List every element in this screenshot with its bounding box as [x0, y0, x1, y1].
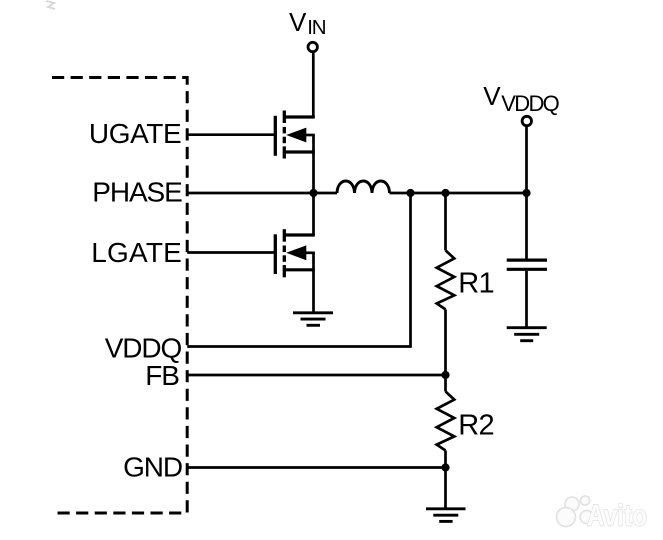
wire R1 to FB node [444, 309, 447, 375]
wire FB node to R2 [444, 375, 447, 392]
ground (under Q2) [293, 313, 333, 326]
wire output node to R1 [444, 193, 447, 250]
wire Q1 source to PHASE node [312, 152, 315, 193]
svg-text:V: V [483, 81, 501, 111]
wire FB pin to divider [187, 374, 445, 377]
wire capacitor to ground [525, 271, 528, 328]
svg-text:Avito: Avito [587, 500, 647, 533]
wire Q2 drain to PHASE node [312, 193, 315, 235]
terminal VVDDQ (circle) [522, 116, 531, 125]
wire GND pin [187, 466, 445, 469]
ground (under R2) [426, 509, 466, 522]
terminal VIN (circle) [308, 42, 317, 51]
svg-text:V: V [289, 7, 307, 37]
svg-text:R2: R2 [458, 410, 493, 442]
stray faint mark top-left [46, 1, 55, 9]
svg-text:PHASE: PHASE [92, 176, 182, 207]
label VVDDQ [483, 81, 559, 116]
wire R2 to GND node [444, 451, 447, 468]
wire Q2 source to ground [312, 270, 315, 313]
node VDDQ-sense junction dot [406, 189, 414, 197]
transistor Q1 (upper N-MOSFET) [275, 111, 315, 159]
wire UGATE pin to Q1 gate [187, 133, 275, 136]
node PHASE junction dot [309, 189, 317, 197]
wire inductor to output node [390, 192, 527, 195]
svg-text:IN: IN [307, 16, 325, 39]
resistor R2 [437, 392, 455, 451]
watermark Avito logo [557, 496, 593, 527]
node output junction dot [522, 189, 530, 197]
svg-text:UGATE: UGATE [89, 118, 181, 149]
wire VVDDQ terminal to output node [525, 127, 528, 193]
wire LGATE pin to Q2 gate [187, 251, 275, 254]
resistor R1 [437, 250, 455, 309]
svg-text:LGATE: LGATE [91, 237, 182, 268]
wire PHASE pin to inductor [187, 192, 337, 195]
node GND junction dot [441, 463, 449, 471]
node FB junction dot [441, 371, 449, 379]
svg-text:R1: R1 [458, 268, 493, 300]
inductor L1 [337, 181, 390, 193]
label VIN [289, 7, 326, 39]
wire VIN to Q1 drain [312, 53, 315, 117]
IC boundary (dashed box) [52, 78, 187, 514]
svg-text:FB: FB [145, 360, 179, 391]
wire output node to capacitor [525, 193, 528, 259]
wire VDDQ pin sense line [187, 193, 410, 347]
wire GND node to ground [444, 468, 447, 509]
svg-text:VDDQ: VDDQ [105, 332, 182, 363]
node R1 top junction dot [441, 189, 449, 197]
svg-text:VDDQ: VDDQ [501, 91, 559, 116]
capacitor C1 [507, 260, 547, 269]
svg-text:GND: GND [123, 451, 182, 482]
transistor Q2 (lower N-MOSFET) [275, 229, 315, 277]
ground (under C1) [507, 328, 547, 341]
